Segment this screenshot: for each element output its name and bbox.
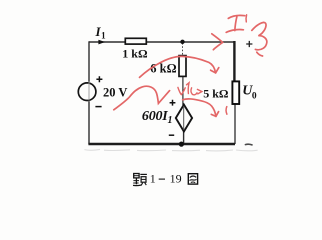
- wire visible through source circle: [88, 83, 90, 101]
- node junction dot top: [180, 40, 184, 44]
- red annotation swoosh arrow to bottom of 5k: [183, 99, 219, 117]
- caption glyph tu (图) approximation: [188, 174, 197, 184]
- dependent source diamond 600I1: [176, 105, 192, 132]
- wire visible through diamond: [183, 106, 185, 130]
- plus sign of diamond: [170, 100, 176, 106]
- plus sign of U0 top right: [246, 41, 252, 47]
- red annotation tick below kOhm right: [225, 107, 228, 115]
- wire top horizontal: [89, 41, 234, 43]
- resistor R 5k box (U0): [232, 81, 239, 104]
- minus sign of 20V source: [95, 106, 101, 108]
- wire bottom horizontal: [88, 143, 235, 145]
- red annotation curved arrow over 6k: [140, 56, 219, 77]
- red annotation letter I: [226, 15, 245, 32]
- svg-text:600I1: 600I1: [142, 109, 172, 126]
- resistor R 6k box: [179, 56, 186, 77]
- svg-text:20 V: 20 V: [103, 86, 127, 100]
- node junction dot bottom: [179, 142, 184, 147]
- wire diamond to bottom: [183, 131, 185, 144]
- red annotation digit 3: [252, 22, 267, 56]
- scan smudge light line under bottom wire: [84, 149, 257, 150]
- scan smudge dash right of bottom wire: [245, 143, 252, 146]
- red annotation curved arrow near 20V: [114, 86, 170, 110]
- caption glyph ti (题) approximation: [133, 174, 147, 186]
- voltage source circle 20V: [78, 83, 96, 101]
- red annotation scribble near diamond top: [178, 83, 202, 95]
- svg-text:I1: I1: [95, 24, 107, 41]
- wire 6k resistor to diamond: [182, 77, 184, 105]
- wire junction to 6k resistor: [182, 43, 184, 56]
- minus sign of diamond: [169, 134, 174, 136]
- wire left vertical lower: [88, 101, 90, 144]
- red annotation chevron on top wire: [212, 34, 223, 50]
- wire right vertical lower: [234, 105, 236, 145]
- svg-text:1: 1: [150, 172, 156, 186]
- svg-text:1 kΩ: 1 kΩ: [122, 47, 148, 61]
- current arrow I1 on top wire: [98, 40, 105, 45]
- svg-text:19: 19: [170, 172, 182, 186]
- plus sign of 20V source: [96, 76, 102, 82]
- svg-text:U0: U0: [242, 84, 257, 102]
- wire right vertical upper: [233, 41, 235, 81]
- resistor R 1k box: [125, 38, 146, 44]
- red annotation tick above plus: [245, 15, 248, 22]
- wire left vertical upper: [88, 41, 90, 82]
- svg-text:5 kΩ: 5 kΩ: [203, 86, 229, 100]
- svg-text:6 kΩ: 6 kΩ: [150, 62, 176, 76]
